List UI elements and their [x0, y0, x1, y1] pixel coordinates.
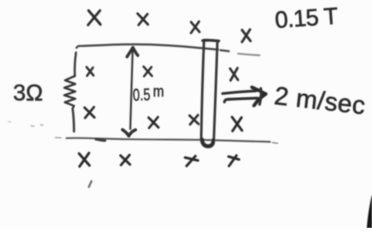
conductor rod: top bar thickening: [203, 39, 219, 43]
field symbol x (below rail 3): [185, 156, 198, 166]
velocity arrow: head right edge stroke: [260, 88, 262, 104]
field symbol x (top row 2): [138, 14, 149, 26]
stray faint dots left: [31, 125, 43, 127]
velocity arrow: top stroke: [223, 91, 257, 94]
field symbol x (top row 4): [242, 30, 251, 43]
svg-text:m: m: [153, 84, 164, 101]
field symbol x (right of rod, lower): [232, 117, 242, 131]
resistor R 3-ohm zigzag: [64, 76, 75, 109]
wire: bottom rail faint dash right end: [273, 142, 278, 145]
conductor rod: bottom ink pool: [202, 140, 213, 146]
field symbol x (below rail 1): [79, 153, 90, 167]
velocity arrow: bottom stroke: [224, 98, 257, 102]
stray faint dot far left: [9, 121, 11, 124]
field symbol x (inside, upper-left): [87, 67, 94, 76]
stray pen tick below circuit: [89, 181, 92, 187]
field symbol x (below rail 2): [121, 155, 131, 165]
wire: top rail faint dash far right: [238, 54, 260, 56]
dimension arrow 0.5m: bottom arrowhead: [123, 130, 136, 136]
field symbol x (inside, left of rod): [190, 115, 199, 125]
field symbol x (top row 1): [88, 11, 101, 26]
velocity arrow: head chevron: [252, 87, 266, 105]
field symbol x (inside, upper-middle): [144, 67, 153, 77]
field symbol x (below rail 4): [229, 156, 240, 167]
svg-text:3Ω: 3Ω: [13, 80, 43, 106]
dimension arrow 0.5m: top arrowhead: [127, 47, 138, 56]
svg-text:0.5: 0.5: [133, 85, 151, 105]
wire: top rail dash right of rod: [221, 50, 229, 51]
wire: left vertical (resistor down to bottom rail): [73, 109, 74, 132]
wire: bottom rail faint lead-in: [56, 137, 62, 139]
field symbol x (inside, lower-left): [85, 107, 95, 118]
field symbol x (top row 3): [191, 22, 200, 34]
wire: bottom rail dark knot: [96, 139, 105, 140]
field symbol x (right of rod, upper): [230, 68, 238, 81]
photo corner artifact bottom-right: [367, 196, 372, 229]
dimension arrow 0.5m: shaft: [130, 49, 132, 130]
wire: bottom rail: [67, 138, 271, 142]
wire: top rail (left corner to rod): [77, 44, 219, 49]
field symbol x (inside, lower-middle): [149, 117, 159, 128]
wire: left vertical (corner down to resistor): [75, 53, 76, 77]
svg-text:0.15 T: 0.15 T: [274, 3, 339, 33]
conductor rod (slider): [201, 40, 217, 147]
